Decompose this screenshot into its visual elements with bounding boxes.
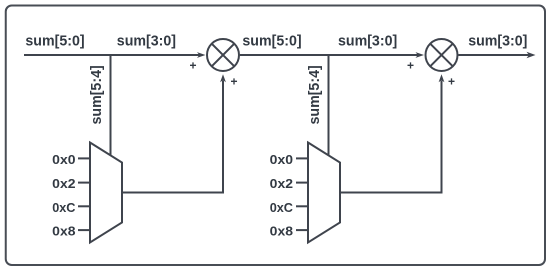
mux M2 input pin tick 0x2 [296,182,308,184]
svg-text:sum[3:0]: sum[3:0] [117,33,176,50]
mux M1 input pin tick 0x2 [78,182,90,184]
svg-text:0xC: 0xC [52,200,76,215]
wire sum[5:0] input [24,54,111,56]
svg-text:0x0: 0x0 [52,152,75,167]
svg-text:0xC: 0xC [270,200,294,215]
arrowhead into adder U2 left [416,52,425,58]
arrowhead into adder U1 left [197,52,206,58]
arrowhead into adder U2 bottom [439,74,445,82]
svg-text:sum[5:0]: sum[5:0] [242,33,301,50]
wire sum[5:0] from U1 to branch 2 [240,54,329,56]
wire sum[3:0] into adder U1 [111,54,201,56]
mux M2 [308,143,340,243]
svg-text:+: + [189,59,196,73]
svg-text:sum[5:4]: sum[5:4] [88,65,105,124]
svg-text:0x2: 0x2 [270,176,293,191]
mux M1 input pin tick 0x0 [78,157,90,159]
svg-text:sum[5:0]: sum[5:0] [25,33,84,50]
wire mux M2 output to adder U2 [340,81,442,193]
wire sum[3:0] into adder U2 [329,54,419,56]
mux M1 [90,143,122,243]
svg-text:0x8: 0x8 [270,224,293,239]
arrowhead into adder U1 bottom [220,74,226,82]
svg-text:sum[3:0]: sum[3:0] [338,33,397,50]
svg-text:+: + [448,75,455,89]
wire mux M1 output to adder U1 [122,81,223,193]
mux M2 input pin tick 0x0 [296,157,308,159]
svg-text:0x8: 0x8 [52,224,75,239]
wire sum[5:4] select branch 2 [328,54,330,156]
adder U2 [426,39,458,71]
wire sum[3:0] output [458,54,529,56]
wire sum[5:4] select branch 1 [110,54,112,156]
arrowhead output right [527,52,536,58]
svg-text:sum[3:0]: sum[3:0] [468,33,527,50]
svg-text:+: + [407,59,414,73]
svg-text:0x2: 0x2 [52,176,75,191]
mux M2 input pin tick 0xC [296,205,308,207]
mux M2 input pin tick 0x8 [296,229,308,231]
mux M1 input pin tick 0x8 [78,229,90,231]
svg-text:sum[5:4]: sum[5:4] [306,65,323,124]
svg-text:0x0: 0x0 [270,152,293,167]
adder U1 [207,39,239,71]
svg-text:+: + [230,75,237,89]
mux M1 input pin tick 0xC [78,205,90,207]
